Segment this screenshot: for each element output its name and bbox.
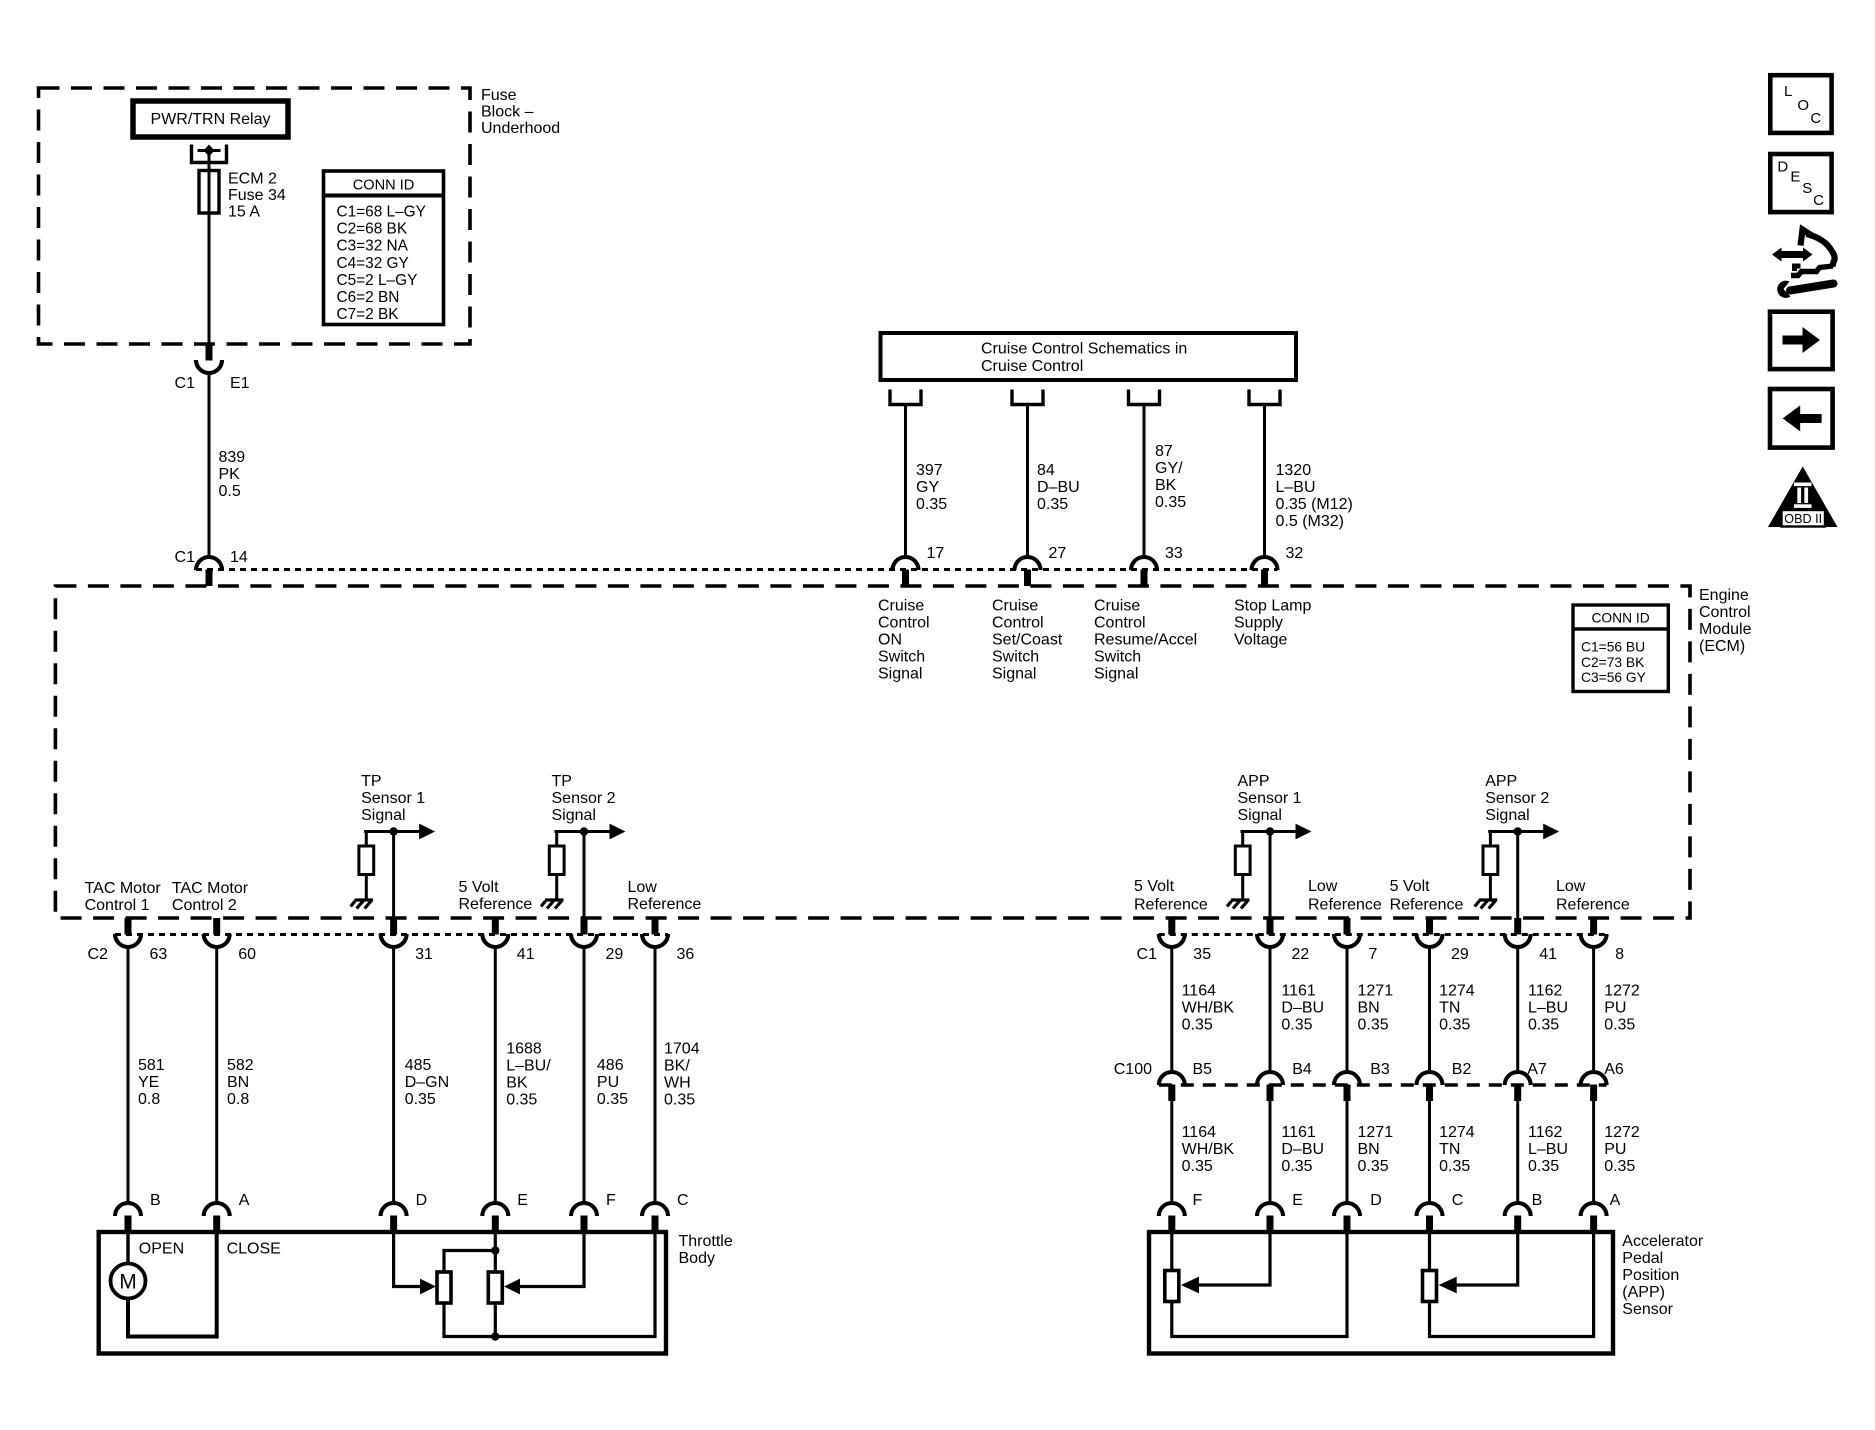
- svg-text:0.35: 0.35: [506, 1092, 537, 1109]
- svg-text:Signal: Signal: [1094, 666, 1138, 683]
- connector C100 dashed line: [1159, 1083, 1607, 1086]
- svg-text:7: 7: [1369, 946, 1378, 963]
- wire 1271 ECM to C100: [1347, 947, 1393, 1073]
- svg-text:87: 87: [1155, 443, 1173, 460]
- svg-text:D–BU: D–BU: [1281, 1000, 1324, 1017]
- wire 1162 C100 to APP sensor: [1518, 1101, 1568, 1205]
- svg-text:C5=2 L–GY: C5=2 L–GY: [337, 272, 418, 289]
- connector C2 pin 63 (ECM bottom): [115, 918, 167, 963]
- svg-text:L–BU: L–BU: [1528, 1141, 1568, 1158]
- label Low Reference (pin 8): [1556, 878, 1630, 914]
- svg-text:29: 29: [606, 946, 624, 963]
- wire 1164 ECM to C100: [1172, 947, 1235, 1073]
- bracket Stop lamp output: [1249, 390, 1280, 405]
- svg-text:PWR/TRN Relay: PWR/TRN Relay: [150, 111, 270, 128]
- svg-text:OBD II: OBD II: [1784, 512, 1822, 526]
- relay PWR/TRN Relay: [133, 101, 288, 137]
- throttle body box: [99, 1232, 666, 1354]
- svg-text:C2=73 BK: C2=73 BK: [1581, 655, 1645, 670]
- label C2: [88, 946, 109, 963]
- label OPEN: [139, 1241, 184, 1258]
- svg-text:Cruise: Cruise: [1094, 598, 1140, 615]
- wire APP pot 1 bottom to pin D: [1172, 1232, 1347, 1337]
- label Cruise Control Resume/Accel Switch Signal: [1094, 598, 1197, 683]
- svg-text:1161: 1161: [1281, 1124, 1316, 1141]
- wire 1688 to throttle body: [495, 947, 551, 1205]
- label Accelerator Pedal Position (APP) Sensor: [1622, 1233, 1704, 1318]
- svg-text:Voltage: Voltage: [1234, 632, 1287, 649]
- svg-text:41: 41: [1539, 946, 1557, 963]
- connector C1 pin 22 (ECM bottom): [1257, 918, 1309, 963]
- svg-text:ON: ON: [878, 632, 902, 649]
- connector APP sensor pin A: [1581, 1192, 1621, 1232]
- svg-text:C3=56 GY: C3=56 GY: [1581, 670, 1646, 685]
- svg-text:WH: WH: [664, 1075, 691, 1092]
- svg-text:Control 2: Control 2: [172, 897, 237, 914]
- svg-text:0.35: 0.35: [664, 1092, 695, 1109]
- svg-text:Accelerator: Accelerator: [1622, 1233, 1704, 1250]
- connector C100 pin B5: [1159, 1061, 1212, 1101]
- connector APP sensor pin C: [1417, 1192, 1464, 1232]
- wire sensor to pin: [583, 832, 586, 919]
- connector pin 17 (ECM top): [893, 545, 945, 586]
- connector C1 pin 14 (ECM entry): [175, 549, 248, 586]
- svg-text:(APP): (APP): [1622, 1284, 1665, 1301]
- svg-text:1162: 1162: [1528, 983, 1563, 1000]
- svg-text:APP: APP: [1485, 773, 1517, 790]
- resistor (internal pull resistor): [1483, 832, 1498, 901]
- svg-text:Fuse: Fuse: [481, 87, 517, 104]
- svg-text:C6=2 BN: C6=2 BN: [337, 289, 400, 306]
- svg-text:0.35: 0.35: [405, 1091, 436, 1108]
- label C100: [1114, 1061, 1152, 1078]
- svg-text:B: B: [150, 1192, 161, 1209]
- svg-text:TN: TN: [1439, 1141, 1460, 1158]
- connector C2 pin 36 (ECM bottom): [642, 918, 694, 963]
- svg-text:1164: 1164: [1182, 983, 1217, 1000]
- svg-text:Control: Control: [1699, 604, 1751, 621]
- icon OBD II triangle: [1768, 467, 1838, 528]
- label TAC Motor Control 1: [85, 880, 162, 914]
- svg-text:1320: 1320: [1276, 462, 1312, 479]
- label APP Sensor 1 Signal: [1238, 773, 1302, 824]
- wire 1274 C100 to APP sensor: [1430, 1101, 1475, 1205]
- svg-text:Reference: Reference: [1390, 897, 1464, 914]
- svg-text:Cruise: Cruise: [878, 598, 924, 615]
- icon back arrow: [1770, 389, 1833, 448]
- svg-text:BK: BK: [506, 1075, 528, 1092]
- svg-text:C1: C1: [175, 375, 196, 392]
- svg-text:D: D: [416, 1192, 428, 1209]
- svg-text:TP: TP: [361, 773, 381, 790]
- svg-text:1274: 1274: [1439, 1124, 1475, 1141]
- svg-text:41: 41: [517, 946, 535, 963]
- svg-text:PK: PK: [219, 466, 241, 483]
- connector pin 27 (ECM top): [1015, 545, 1067, 586]
- ground: [351, 900, 374, 909]
- svg-text:S: S: [1802, 180, 1812, 197]
- connector pin 33 (ECM top): [1131, 545, 1183, 586]
- svg-text:1704: 1704: [664, 1041, 700, 1058]
- wire tp-sensor node: [555, 830, 611, 833]
- svg-text:C2=68 BK: C2=68 BK: [337, 221, 408, 238]
- svg-text:BK: BK: [1155, 477, 1177, 494]
- svg-text:Reference: Reference: [1556, 897, 1630, 914]
- svg-text:C100: C100: [1114, 1061, 1152, 1078]
- wire 1161 ECM to C100: [1270, 947, 1324, 1073]
- svg-text:GY: GY: [916, 479, 939, 496]
- svg-text:A7: A7: [1527, 1061, 1547, 1078]
- wire pin E to APP pot 1 wiper: [1181, 1232, 1270, 1293]
- wire app-sensor node: [1488, 830, 1544, 833]
- svg-text:Reference: Reference: [1308, 897, 1382, 914]
- connector pin 32 (ECM top): [1252, 545, 1304, 586]
- ground: [1475, 900, 1498, 909]
- svg-text:Signal: Signal: [361, 807, 405, 824]
- svg-text:35: 35: [1193, 946, 1211, 963]
- svg-text:L: L: [1784, 83, 1792, 100]
- wire 1162 ECM to C100: [1518, 947, 1568, 1073]
- svg-text:TP: TP: [552, 773, 572, 790]
- ground: [541, 900, 564, 909]
- svg-text:C7=2 BK: C7=2 BK: [337, 306, 400, 323]
- svg-text:L–BU: L–BU: [1528, 1000, 1568, 1017]
- wire pin B to APP pot 2 wiper: [1439, 1232, 1518, 1293]
- label C1: [1137, 946, 1158, 963]
- connector throttle body pin D: [381, 1192, 428, 1232]
- node junction dot: [389, 827, 397, 835]
- svg-text:A6: A6: [1604, 1061, 1624, 1078]
- svg-text:0.35: 0.35: [1528, 1017, 1559, 1034]
- svg-text:17: 17: [927, 545, 945, 562]
- svg-text:BN: BN: [1358, 1000, 1380, 1017]
- svg-text:0.35: 0.35: [1358, 1158, 1389, 1175]
- svg-text:B5: B5: [1193, 1061, 1213, 1078]
- svg-text:C1: C1: [175, 549, 196, 566]
- label TAC Motor Control 2: [172, 880, 249, 914]
- connector C1 pin 41 (ECM bottom): [1505, 918, 1557, 963]
- svg-text:485: 485: [405, 1057, 432, 1074]
- wire 582 to throttle body: [217, 947, 254, 1205]
- svg-text:Sensor 1: Sensor 1: [1238, 790, 1302, 807]
- svg-text:1162: 1162: [1528, 1124, 1563, 1141]
- svg-text:22: 22: [1292, 946, 1310, 963]
- svg-text:84: 84: [1037, 462, 1055, 479]
- svg-text:36: 36: [677, 946, 695, 963]
- svg-text:Switch: Switch: [878, 649, 925, 666]
- svg-text:YE: YE: [138, 1074, 159, 1091]
- svg-text:CONN ID: CONN ID: [1591, 611, 1649, 626]
- svg-text:Pedal: Pedal: [1622, 1250, 1663, 1267]
- connector throttle body pin E: [482, 1192, 528, 1232]
- svg-text:Supply: Supply: [1234, 615, 1283, 632]
- svg-text:GY/: GY/: [1155, 460, 1183, 477]
- APP sensor box: [1149, 1232, 1613, 1354]
- wire pin F into APP pot 1: [1170, 1232, 1173, 1271]
- svg-text:0.35: 0.35: [1037, 496, 1068, 513]
- svg-text:WH/BK: WH/BK: [1182, 1000, 1235, 1017]
- svg-text:Switch: Switch: [992, 649, 1039, 666]
- wire 1274 ECM to C100: [1430, 947, 1475, 1073]
- svg-text:Stop Lamp: Stop Lamp: [1234, 598, 1311, 615]
- svg-text:B3: B3: [1370, 1061, 1390, 1078]
- svg-text:APP: APP: [1238, 773, 1270, 790]
- wire pin F to TP pot 2 wiper: [504, 1232, 584, 1294]
- wire 1320 L-BU: [1265, 405, 1353, 558]
- svg-text:1161: 1161: [1281, 983, 1316, 1000]
- svg-text:Signal: Signal: [1238, 807, 1282, 824]
- connector C1 harness dotted line (ECM top): [196, 568, 1278, 571]
- potentiometer APP sensor 1: [1165, 1271, 1179, 1302]
- svg-text:Cruise: Cruise: [992, 598, 1038, 615]
- wire 87 GY/BK 0.35: [1144, 405, 1186, 558]
- label Low Reference (pin 7): [1308, 878, 1382, 914]
- svg-text:33: 33: [1165, 545, 1183, 562]
- svg-text:0.35 (M12): 0.35 (M12): [1276, 496, 1353, 513]
- svg-text:0.5: 0.5: [219, 483, 241, 500]
- label CLOSE: [227, 1241, 281, 1258]
- svg-text:C1: C1: [1137, 946, 1158, 963]
- svg-text:5 Volt: 5 Volt: [1134, 878, 1175, 895]
- wire 485 to throttle body: [394, 947, 450, 1205]
- svg-text:E: E: [1790, 169, 1800, 186]
- svg-text:0.5 (M32): 0.5 (M32): [1276, 513, 1344, 530]
- wire sensor to pin: [1516, 832, 1519, 919]
- connector C2 pin 31 (ECM bottom): [381, 918, 433, 963]
- connector C1 pin 7 (ECM bottom): [1334, 918, 1378, 963]
- svg-text:Block –: Block –: [481, 104, 534, 121]
- svg-text:1274: 1274: [1439, 983, 1475, 1000]
- svg-text:0.35: 0.35: [1528, 1158, 1559, 1175]
- resistor (internal pull resistor): [1235, 832, 1250, 901]
- svg-text:Module: Module: [1699, 621, 1752, 638]
- svg-text:D: D: [1777, 159, 1788, 176]
- connector APP sensor pin B: [1505, 1192, 1543, 1232]
- ground: [1227, 900, 1250, 909]
- signal arrow: [610, 824, 626, 840]
- table CONN ID (fuse block): [324, 171, 444, 325]
- connector C100 pin A7: [1505, 1061, 1547, 1101]
- svg-text:Sensor: Sensor: [1622, 1301, 1673, 1318]
- svg-text:0.35: 0.35: [1439, 1158, 1470, 1175]
- svg-text:C1=56 BU: C1=56 BU: [1581, 640, 1645, 655]
- svg-text:0.35: 0.35: [916, 496, 947, 513]
- svg-text:WH/BK: WH/BK: [1182, 1141, 1235, 1158]
- svg-text:63: 63: [150, 946, 168, 963]
- fuse F34 ECM 2 15A: [199, 171, 219, 214]
- svg-text:Control: Control: [992, 615, 1044, 632]
- svg-text:Signal: Signal: [878, 666, 922, 683]
- label 5 Volt Reference (pin 41): [459, 879, 533, 913]
- svg-text:TAC Motor: TAC Motor: [85, 880, 162, 897]
- wire 839 PK 0.5: [209, 373, 245, 558]
- svg-text:397: 397: [916, 462, 943, 479]
- svg-text:581: 581: [138, 1057, 165, 1074]
- svg-text:5 Volt: 5 Volt: [459, 879, 500, 896]
- ECM dashed box: [55, 586, 1690, 918]
- bracket Set/Coast switch output: [1012, 390, 1043, 405]
- svg-text:OPEN: OPEN: [139, 1241, 184, 1258]
- wire sensor to pin: [1269, 832, 1272, 919]
- label Cruise Control ON Switch Signal: [878, 598, 930, 683]
- svg-text:Cruise Control Schematics in: Cruise Control Schematics in: [981, 341, 1187, 358]
- label Fuse Block Underhood: [481, 87, 560, 137]
- svg-text:8: 8: [1615, 946, 1624, 963]
- svg-text:C4=32 GY: C4=32 GY: [337, 255, 409, 272]
- svg-text:A: A: [1610, 1192, 1621, 1209]
- svg-text:Signal: Signal: [1485, 807, 1529, 824]
- connector C1 pin 29 (ECM bottom): [1417, 918, 1469, 963]
- svg-text:Low: Low: [1556, 878, 1586, 895]
- svg-text:Reference: Reference: [628, 896, 702, 913]
- wire 486 to throttle body: [584, 947, 628, 1205]
- motor M: [111, 1232, 146, 1299]
- svg-text:1688: 1688: [506, 1041, 542, 1058]
- svg-text:0.8: 0.8: [227, 1091, 249, 1108]
- svg-text:0.35: 0.35: [1358, 1017, 1389, 1034]
- svg-text:Control 1: Control 1: [85, 897, 150, 914]
- svg-text:Throttle: Throttle: [679, 1233, 733, 1250]
- connector APP sensor pin E: [1257, 1192, 1303, 1232]
- connector C1 pin 8 (ECM bottom): [1581, 918, 1625, 963]
- label Engine Control Module (ECM): [1699, 587, 1752, 655]
- wire pot bottoms to pin C: [444, 1232, 655, 1341]
- svg-text:0.8: 0.8: [138, 1091, 160, 1108]
- svg-text:Underhood: Underhood: [481, 120, 560, 137]
- svg-text:C: C: [1813, 192, 1824, 209]
- wire relay to fuse: [208, 150, 211, 172]
- svg-text:D: D: [1370, 1192, 1382, 1209]
- svg-text:C2: C2: [88, 946, 109, 963]
- svg-text:L–BU/: L–BU/: [506, 1058, 551, 1075]
- svg-text:M: M: [119, 1271, 137, 1294]
- connector C1 harness dotted line (ECM bottom right): [1159, 933, 1607, 936]
- connector C2 pin 29 (ECM bottom): [571, 918, 623, 963]
- svg-text:0.35: 0.35: [597, 1091, 628, 1108]
- svg-text:Cruise Control: Cruise Control: [981, 358, 1083, 375]
- svg-text:C1=68 L–GY: C1=68 L–GY: [337, 204, 426, 221]
- wire motor to pin A: [128, 1232, 217, 1337]
- svg-text:0.35: 0.35: [1281, 1017, 1312, 1034]
- svg-text:F: F: [1193, 1192, 1203, 1209]
- svg-text:D–GN: D–GN: [405, 1074, 449, 1091]
- svg-text:CLOSE: CLOSE: [227, 1241, 281, 1258]
- icon forward arrow: [1770, 312, 1833, 369]
- wire app-sensor node: [1241, 830, 1297, 833]
- svg-text:E: E: [517, 1192, 528, 1209]
- resistor (internal pull resistor): [359, 832, 374, 901]
- relay output terminal bracket: [192, 145, 227, 163]
- svg-text:CONN ID: CONN ID: [353, 178, 415, 194]
- label ECM 2 Fuse 34 15 A: [228, 171, 286, 221]
- svg-text:Resume/Accel: Resume/Accel: [1094, 632, 1197, 649]
- svg-text:(ECM): (ECM): [1699, 638, 1745, 655]
- svg-text:Reference: Reference: [459, 896, 533, 913]
- svg-text:C: C: [1810, 110, 1821, 127]
- svg-text:Signal: Signal: [552, 807, 596, 824]
- svg-text:BN: BN: [1358, 1141, 1380, 1158]
- svg-text:PU: PU: [1604, 1141, 1626, 1158]
- connector APP sensor pin D: [1334, 1192, 1382, 1232]
- svg-text:0.35: 0.35: [1604, 1158, 1635, 1175]
- fuse block underhood dashed box: [39, 88, 471, 344]
- svg-text:E1: E1: [230, 375, 250, 392]
- connector throttle body pin F: [571, 1192, 616, 1232]
- icon LOC: [1770, 75, 1831, 133]
- connector throttle body pin A: [204, 1192, 250, 1232]
- svg-text:E: E: [1292, 1192, 1303, 1209]
- svg-text:1164: 1164: [1182, 1124, 1217, 1141]
- svg-text:0.35: 0.35: [1182, 1158, 1213, 1175]
- wire sensor to pin: [392, 832, 395, 919]
- svg-text:486: 486: [597, 1057, 624, 1074]
- svg-text:5 Volt: 5 Volt: [1390, 878, 1431, 895]
- label 5 Volt Reference (pin 35): [1134, 878, 1208, 914]
- svg-text:Reference: Reference: [1134, 897, 1208, 914]
- svg-text:1272: 1272: [1604, 1124, 1640, 1141]
- wire 581 to throttle body: [128, 947, 165, 1205]
- wire pin D to TP pot 1 wiper: [394, 1232, 436, 1294]
- svg-text:TAC Motor: TAC Motor: [172, 880, 249, 897]
- label Stop Lamp Supply Voltage: [1234, 598, 1311, 649]
- svg-text:Engine: Engine: [1699, 587, 1749, 604]
- svg-text:14: 14: [230, 549, 248, 566]
- node junction dot: [580, 827, 588, 835]
- svg-text:32: 32: [1286, 545, 1304, 562]
- svg-text:Control: Control: [1094, 615, 1146, 632]
- svg-text:Sensor 2: Sensor 2: [1485, 790, 1549, 807]
- svg-text:O: O: [1797, 97, 1809, 114]
- svg-text:Set/Coast: Set/Coast: [992, 632, 1063, 649]
- svg-text:0.35: 0.35: [1604, 1017, 1635, 1034]
- signal arrow: [1543, 824, 1559, 840]
- svg-text:60: 60: [238, 946, 256, 963]
- svg-text:1271: 1271: [1358, 983, 1394, 1000]
- svg-text:Low: Low: [1308, 878, 1338, 895]
- svg-text:B: B: [1532, 1192, 1543, 1209]
- label Low Reference (pin 36): [628, 879, 702, 913]
- bracket Resume/Accel switch output: [1129, 390, 1160, 405]
- svg-text:1271: 1271: [1358, 1124, 1394, 1141]
- icon DESC: [1770, 154, 1831, 212]
- connector C100 pin B2: [1417, 1061, 1472, 1101]
- svg-text:Switch: Switch: [1094, 649, 1141, 666]
- svg-text:A: A: [239, 1192, 250, 1209]
- potentiometer TP sensor 1: [437, 1272, 451, 1303]
- connector C1 pin 35 (ECM bottom): [1159, 918, 1211, 963]
- svg-text:F: F: [606, 1192, 616, 1209]
- label TP Sensor 2 Signal: [552, 773, 616, 824]
- wire 397 GY 0.35: [906, 405, 948, 558]
- label APP Sensor 2 Signal: [1485, 773, 1549, 824]
- label Cruise Control Set/Coast Switch Signal: [992, 598, 1063, 683]
- wire 1272 ECM to C100: [1594, 947, 1640, 1073]
- svg-text:B4: B4: [1292, 1061, 1312, 1078]
- box Cruise Control Schematics: [881, 333, 1297, 380]
- svg-text:ECM 2: ECM 2: [228, 171, 277, 188]
- connector C100 pin A6: [1581, 1061, 1624, 1101]
- connector C2 pin 41 (ECM bottom): [482, 918, 534, 963]
- svg-text:0.35: 0.35: [1281, 1158, 1312, 1175]
- svg-text:31: 31: [415, 946, 433, 963]
- svg-text:BK/: BK/: [664, 1058, 690, 1075]
- connector throttle body pin B: [115, 1192, 161, 1232]
- signal arrow: [1296, 824, 1312, 840]
- connector APP sensor pin F: [1159, 1192, 1203, 1232]
- potentiometer TP sensor 2: [488, 1272, 502, 1303]
- svg-text:PU: PU: [597, 1074, 619, 1091]
- svg-text:D–BU: D–BU: [1037, 479, 1080, 496]
